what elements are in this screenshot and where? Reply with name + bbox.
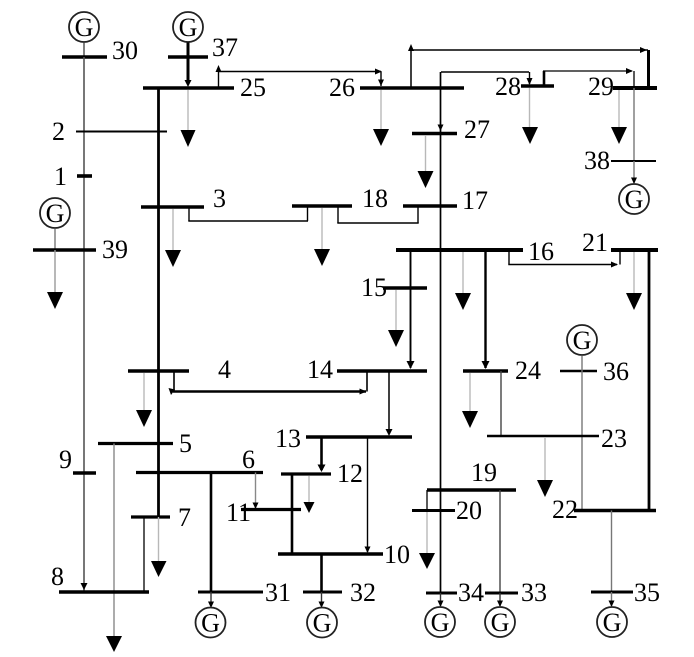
svg-text:G: G	[625, 185, 644, 214]
load arrow bus 7	[151, 517, 167, 577]
bus 2	[52, 117, 167, 146]
bus 22	[552, 495, 656, 524]
wire 26-28	[441, 72, 533, 85]
wire 19-33	[499, 490, 501, 593]
wire 16-21	[508, 250, 620, 268]
bus 28	[495, 72, 554, 101]
bus 38	[584, 146, 656, 175]
bus 7	[131, 503, 191, 532]
bus 21	[582, 228, 658, 257]
generator G34	[425, 593, 455, 637]
svg-text:9: 9	[59, 445, 72, 474]
load arrow bus 28	[522, 88, 538, 144]
svg-text:28: 28	[495, 72, 521, 101]
svg-text:25: 25	[240, 73, 266, 102]
bus 33	[485, 578, 547, 607]
svg-text:5: 5	[179, 429, 192, 458]
generator G32	[307, 592, 337, 638]
bus 16	[396, 237, 554, 266]
wire 11-12-10	[291, 474, 294, 554]
load arrow bus 25	[181, 90, 196, 147]
svg-text:38: 38	[584, 146, 610, 175]
svg-text:G: G	[491, 608, 510, 637]
svg-text:G: G	[313, 609, 332, 638]
svg-text:31: 31	[265, 578, 291, 607]
bus 12	[281, 459, 363, 488]
wire 3-18	[188, 206, 308, 221]
wire 21-22	[648, 250, 651, 511]
wire 7-8	[143, 517, 145, 592]
svg-text:G: G	[179, 13, 198, 42]
load arrow bus 26	[373, 90, 389, 146]
bus 26	[329, 73, 464, 102]
load arrow bus 12	[304, 476, 315, 513]
bus 1	[54, 162, 92, 191]
svg-text:23: 23	[601, 424, 627, 453]
svg-text:G: G	[201, 609, 220, 638]
wire 22-35	[611, 511, 613, 593]
svg-text:35: 35	[634, 578, 660, 607]
svg-text:20: 20	[456, 496, 482, 525]
svg-text:16: 16	[528, 237, 554, 266]
svg-text:32: 32	[350, 578, 376, 607]
svg-text:G: G	[603, 608, 622, 637]
generator G33	[485, 593, 515, 637]
load arrow bus 3	[165, 209, 181, 267]
generator G36	[567, 325, 597, 355]
wire 23-24	[500, 371, 502, 436]
bus 27	[412, 115, 490, 144]
load arrow bus 24	[462, 373, 478, 428]
generator G38	[619, 161, 649, 214]
load arrow bus 23	[537, 438, 553, 497]
generator G31	[196, 592, 226, 638]
bus 37	[168, 33, 238, 62]
svg-text:37: 37	[212, 33, 238, 62]
wire 16-15-14	[407, 250, 415, 369]
wire 17-18	[337, 206, 418, 223]
wire 25-26	[216, 65, 385, 88]
bus 15	[361, 273, 427, 302]
bus 20	[412, 496, 482, 525]
bus 5	[98, 429, 192, 458]
svg-text:30: 30	[112, 36, 138, 65]
load arrow bus 27	[418, 135, 434, 188]
bus 25	[143, 73, 266, 102]
bus 31	[198, 578, 291, 607]
svg-text:34: 34	[458, 578, 484, 607]
bus 6	[136, 445, 263, 474]
svg-text:36: 36	[603, 357, 629, 386]
wire 12-13	[318, 437, 326, 472]
bus 14	[307, 355, 427, 384]
wire 27-17-16-19-20-34 long vertical	[438, 72, 444, 593]
bus 36	[560, 357, 629, 386]
wire 6-11	[253, 473, 259, 510]
svg-text:13: 13	[275, 424, 301, 453]
bus 3	[141, 184, 226, 213]
svg-text:21: 21	[582, 228, 608, 257]
wire 13-10	[365, 437, 371, 553]
svg-text:14: 14	[307, 355, 333, 384]
load arrow bus 18	[314, 208, 330, 266]
svg-text:G: G	[431, 608, 450, 637]
svg-text:18: 18	[362, 184, 388, 213]
bus 23	[487, 424, 627, 453]
bus 18	[292, 184, 388, 213]
svg-text:3: 3	[213, 184, 226, 213]
svg-text:10: 10	[384, 540, 410, 569]
bus 8	[51, 562, 149, 592]
svg-text:19: 19	[471, 458, 497, 487]
svg-text:27: 27	[464, 115, 490, 144]
load arrow bus 39	[47, 250, 63, 309]
bus 10	[278, 540, 410, 569]
svg-text:11: 11	[226, 498, 251, 527]
bus 39	[33, 235, 128, 264]
svg-text:4: 4	[218, 355, 231, 384]
load arrow bus 16	[455, 252, 471, 310]
svg-text:2: 2	[52, 117, 65, 146]
wire 28-29	[543, 68, 634, 88]
load arrow bus 21	[626, 252, 642, 310]
bus 24	[463, 356, 541, 385]
svg-text:39: 39	[102, 235, 128, 264]
bus 9	[59, 445, 96, 474]
load arrow bus 29	[611, 90, 627, 144]
wire 6-31	[210, 473, 213, 593]
generator G30	[69, 12, 99, 57]
svg-text:1: 1	[54, 162, 67, 191]
bus 34	[426, 578, 484, 607]
svg-text:G: G	[573, 326, 592, 355]
load arrow bus 4	[136, 373, 152, 427]
svg-text:12: 12	[337, 459, 363, 488]
bus 32	[303, 578, 376, 607]
wire 10-32	[320, 554, 323, 592]
svg-text:24: 24	[515, 356, 541, 385]
svg-text:8: 8	[51, 562, 64, 591]
generator G37	[173, 12, 203, 57]
load arrow bus 20	[419, 512, 435, 569]
wire 4-14	[169, 371, 368, 395]
wire 25-2-3-4-5-6-7 chain vertical	[157, 88, 160, 517]
bus 35	[591, 578, 660, 607]
bus 13	[275, 424, 412, 453]
wire 30-2-1-39-9-8 left vertical	[81, 57, 88, 591]
svg-text:26: 26	[329, 73, 355, 102]
svg-text:15: 15	[361, 273, 387, 302]
svg-text:6: 6	[242, 445, 255, 474]
bus 29	[588, 72, 657, 101]
wire 13-14	[386, 371, 393, 436]
svg-text:G: G	[75, 13, 94, 42]
wire 37-25	[185, 57, 192, 87]
generator G35	[597, 592, 627, 637]
svg-text:7: 7	[178, 503, 191, 532]
load arrow bus 15	[388, 290, 404, 347]
wire 26-29	[408, 44, 649, 88]
svg-text:G: G	[46, 199, 65, 228]
wire 29-38	[633, 88, 635, 161]
wire 36-23-22	[581, 356, 583, 511]
bus 17	[403, 186, 488, 215]
bus 4	[128, 355, 231, 384]
wire 5-8 and load arrow bus 8	[106, 444, 122, 653]
wire 19-20	[426, 490, 428, 511]
bus 11	[226, 498, 301, 527]
bus 30	[62, 36, 138, 65]
generator G39	[40, 198, 70, 250]
bus 19	[427, 458, 516, 490]
svg-text:29: 29	[588, 72, 614, 101]
wire 16-24	[482, 250, 490, 369]
svg-text:17: 17	[462, 186, 488, 215]
svg-text:22: 22	[552, 495, 578, 524]
svg-text:33: 33	[521, 578, 547, 607]
